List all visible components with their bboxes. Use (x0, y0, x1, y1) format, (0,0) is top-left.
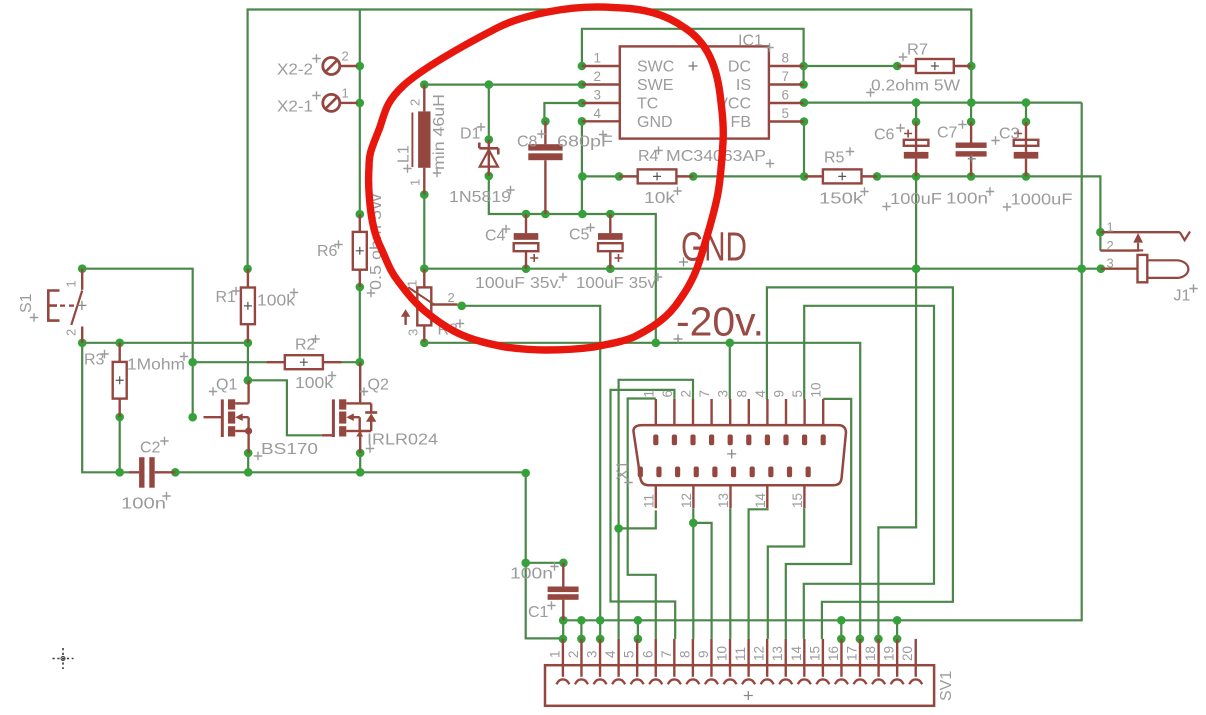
svg-text:2: 2 (1107, 238, 1114, 253)
value min 46uH (rotated) (431, 94, 448, 177)
svg-text:15: 15 (807, 646, 822, 661)
junction dots (wire-wire and wire-pin) (78, 62, 1105, 644)
transistor Q1 BS170 (222, 399, 252, 437)
capacitor C6 100uF (904, 122, 929, 177)
value MC34063AP (666, 148, 774, 168)
svg-text:1N5819: 1N5819 (449, 189, 511, 206)
Q1 source pin (247, 431, 249, 453)
wire net R8 wiper to SV1 pin3 (462, 306, 601, 639)
wire net VIN: top bus, X2 chain down to R6 (248, 10, 972, 269)
wire net VCC bus row102 with C6/C7/C3 stubs (804, 103, 1082, 122)
svg-text:16: 16 (826, 646, 841, 661)
label R2 (295, 335, 320, 354)
svg-text:3: 3 (594, 88, 602, 103)
value 100uF 35v (C5) (576, 273, 662, 292)
wire net FB/output row to J1 pins 1-2 (582, 122, 1100, 251)
label R6 (317, 240, 343, 260)
svg-text:13: 13 (770, 646, 785, 661)
wire net X1 pin6 to SV1 pin7 (611, 390, 676, 639)
svg-text:4: 4 (594, 106, 602, 121)
svg-text:2: 2 (679, 390, 694, 398)
svg-text:4: 4 (603, 650, 618, 658)
label C6 (874, 124, 905, 144)
IC1 pin names (637, 59, 751, 132)
svg-text:10k: 10k (644, 190, 676, 207)
svg-text:10: 10 (809, 382, 824, 397)
svg-text:0.2ohm 5W: 0.2ohm 5W (871, 78, 961, 95)
wire net S1/R1/R3/R2/Q1/Q2 left section (82, 269, 360, 473)
wire net source bus row472 with C2 and C1 (82, 343, 563, 639)
connector X1 D-sub body (633, 425, 846, 485)
value 1Mohm (127, 352, 188, 373)
label C4 (485, 225, 510, 245)
svg-text:S1: S1 (18, 293, 35, 313)
value 100k (R2) (295, 371, 336, 392)
svg-text:4: 4 (753, 390, 768, 398)
svg-text:1: 1 (405, 280, 420, 287)
X1 contact stubs (638, 435, 826, 478)
value 100k (R1) (257, 288, 298, 309)
svg-text:BS170: BS170 (261, 441, 318, 458)
label R5 (824, 147, 854, 166)
svg-text:9: 9 (772, 390, 787, 398)
svg-text:17: 17 (845, 646, 860, 661)
annotation: hand-drawn red circle (369, 7, 724, 350)
label R3 (84, 350, 109, 369)
label Q1 (209, 377, 238, 396)
label R1 (216, 287, 241, 306)
svg-text:10: 10 (715, 646, 730, 661)
svg-text:min 46uH: min 46uH (431, 94, 448, 170)
wire net X1 pin2/pin11 to SV1 pin4 (619, 380, 693, 639)
capacitor C3 1000uF (1014, 122, 1039, 177)
switch S1 (48, 269, 86, 343)
svg-text:680pF: 680pF (557, 134, 613, 151)
wire net X1 pin1 to SV1 pin6 (628, 399, 656, 639)
svg-text:14: 14 (789, 645, 804, 661)
svg-text:IS: IS (736, 77, 751, 94)
value 150k (819, 187, 869, 207)
value 10k (644, 187, 682, 207)
svg-text:MC34063AP: MC34063AP (666, 148, 766, 165)
svg-text:100n: 100n (121, 496, 166, 513)
label C3 (991, 126, 1019, 145)
X1 bottom pin lines (656, 485, 805, 508)
label X1 (rotated) (615, 460, 633, 486)
diode D1 schottky (479, 140, 498, 176)
svg-text:2: 2 (448, 290, 455, 305)
svg-text:11: 11 (641, 494, 656, 508)
svg-text:TC: TC (637, 96, 658, 113)
label C5 (569, 223, 595, 243)
label J1 (1174, 284, 1198, 304)
svg-text:5: 5 (622, 650, 637, 658)
svg-text:3: 3 (585, 650, 600, 658)
origin cross mark (53, 648, 74, 669)
svg-text:GND: GND (637, 114, 673, 131)
svg-text:13: 13 (716, 493, 731, 508)
capacitor C8 (528, 121, 562, 214)
wire net X1 pin14 to SV1 pin11 (749, 508, 768, 639)
svg-text:6: 6 (660, 390, 675, 398)
wire net X1 pin4 to SV1 pin15 (767, 287, 953, 639)
wire net row214 D1/C4/C8/C5 tops (489, 176, 656, 343)
label R7 (899, 42, 928, 62)
label D1 (460, 123, 485, 143)
wire net X1 pin12 to SV1 pins 8,9 (693, 508, 711, 639)
capacitor C4 100uF (514, 214, 539, 269)
label S1 (rotated) (18, 293, 38, 321)
svg-text:12: 12 (679, 493, 694, 508)
inductor L1 (412, 85, 430, 195)
svg-text:8: 8 (734, 390, 749, 398)
svg-text:D1: D1 (460, 126, 481, 143)
net label GND (679, 224, 747, 270)
svg-text:C3: C3 (999, 126, 1020, 143)
svg-text:R7: R7 (907, 42, 928, 59)
svg-text:1: 1 (408, 179, 423, 186)
wire net row620 SV1 pins 1,2,3,5,16,19 (563, 103, 1081, 639)
capacitor C5 100uF (598, 214, 623, 269)
label IC1 (738, 33, 774, 52)
svg-text:3: 3 (406, 329, 421, 336)
svg-text:7: 7 (659, 650, 674, 658)
wire net TC to C8 (544, 103, 582, 121)
op-amp/IC U1: IC1 MC34063AP box (582, 46, 804, 138)
svg-text:1: 1 (547, 650, 562, 658)
svg-text:C6: C6 (874, 127, 895, 144)
label R8 (438, 319, 465, 338)
wire net X1 pin10 to SV1 pin13 (786, 399, 851, 639)
resistor R6 (353, 214, 367, 287)
IC1 pin numbers 1-8 (594, 51, 790, 122)
resistor R1 (241, 269, 255, 343)
wire net X1 pin13 to SV1 pin10 (729, 508, 731, 639)
connector X2-1 screw terminal (323, 94, 358, 111)
svg-text:R6: R6 (317, 243, 338, 260)
label X2-2 with pin 2 (277, 49, 349, 79)
svg-text:100uF 35v: 100uF 35v (576, 275, 656, 292)
svg-text:5: 5 (782, 106, 790, 121)
svg-text:100k: 100k (295, 375, 334, 392)
svg-text:1: 1 (64, 280, 79, 287)
svg-text:SWE: SWE (637, 77, 673, 94)
svg-text:18: 18 (863, 646, 878, 661)
svg-text:DC: DC (728, 59, 751, 76)
svg-text:R5: R5 (824, 150, 845, 167)
svg-text:X1: X1 (615, 460, 632, 480)
svg-text:150k: 150k (819, 191, 864, 208)
resistor R5 (804, 169, 877, 183)
svg-text:3: 3 (716, 390, 731, 398)
label X2-1 with pin 1 (277, 86, 349, 116)
svg-text:100n: 100n (510, 566, 553, 583)
wire net GND row343 to X1 pin3 and SV1 pin17 (424, 343, 860, 639)
svg-text:100uF 35v.: 100uF 35v. (475, 275, 562, 292)
svg-text:2: 2 (342, 49, 349, 64)
value 0.2ohm 5W (866, 78, 961, 97)
svg-text:100uF: 100uF (890, 191, 942, 208)
capacitor C7 100n (956, 122, 987, 177)
value IRLR024 (366, 432, 438, 453)
svg-text:X2-2: X2-2 (277, 62, 313, 79)
label Q2 (360, 377, 389, 396)
wire net X1 pin15 to SV1 pin12 (768, 508, 804, 639)
svg-text:2: 2 (408, 99, 423, 106)
transistor Q2 IRLR024 (333, 399, 377, 437)
svg-text:11: 11 (733, 647, 748, 661)
svg-text:5: 5 (790, 390, 805, 398)
svg-text:8: 8 (677, 650, 692, 658)
svg-text:C2: C2 (140, 440, 161, 457)
Q1 drain pin (247, 380, 249, 403)
resistor R2 (266, 355, 341, 369)
svg-text:12: 12 (752, 646, 767, 661)
SV1 pin stubs and contacts (556, 639, 922, 684)
svg-text:Q1: Q1 (216, 377, 237, 394)
svg-text:100k: 100k (257, 293, 296, 310)
connector J1 jack plug (1100, 232, 1190, 283)
svg-text:C5: C5 (569, 227, 590, 244)
svg-text:1: 1 (641, 390, 656, 398)
svg-text:6: 6 (782, 88, 790, 103)
resistor R7 (897, 59, 971, 73)
svg-text:100n: 100n (946, 191, 988, 208)
svg-text:C4: C4 (485, 228, 506, 245)
Q2 gate pin (322, 434, 334, 436)
svg-text:SWC: SWC (637, 59, 674, 76)
svg-text:C1: C1 (528, 604, 549, 621)
value 1000uF (C3) (1003, 192, 1073, 212)
svg-text:8: 8 (782, 51, 790, 66)
svg-text:FB: FB (731, 114, 751, 131)
value 680pF (557, 130, 613, 150)
connector X2-2 screw terminal (323, 58, 358, 75)
svg-text:1: 1 (1107, 220, 1114, 235)
label C7 (937, 120, 967, 141)
svg-text:7: 7 (697, 390, 712, 398)
connector SV1 body (545, 665, 934, 706)
value 100uF (C6) (882, 191, 942, 211)
value 100n (C1) (510, 562, 559, 582)
value 0.5 ohm 5W (rotated) (367, 192, 385, 297)
svg-text:1: 1 (594, 51, 602, 66)
net label -20v. (674, 299, 765, 345)
wire net SWC-DC-IS loop and to R7 left (582, 29, 897, 85)
value 1N5819 (449, 186, 515, 206)
capacitor C1 100n (548, 563, 579, 621)
Q1 gate pin (204, 416, 223, 418)
svg-text:14: 14 (753, 492, 768, 508)
SV1 pin numbers 1-20 (547, 645, 915, 661)
svg-text:2: 2 (566, 650, 581, 658)
svg-text:2: 2 (64, 329, 79, 336)
label C2 (140, 437, 169, 457)
svg-text:C7: C7 (937, 125, 958, 142)
wire net IC GND pin down (581, 121, 583, 214)
svg-text:1Mohm: 1Mohm (127, 357, 185, 374)
wire net SWE: L1 top, D1 top (424, 85, 582, 140)
label L1 (rotated) (396, 145, 413, 173)
svg-text:2: 2 (594, 69, 602, 84)
resistor R4 (619, 169, 693, 183)
Q2 source pin (359, 431, 361, 453)
resistor R3 (113, 343, 127, 417)
svg-text:9: 9 (696, 650, 711, 658)
svg-text:GND: GND (681, 224, 747, 270)
X1 top pin numbers (641, 382, 823, 397)
label C1 (528, 601, 556, 621)
svg-text:X2-1: X2-1 (277, 99, 313, 116)
potentiometer R8 (401, 269, 458, 342)
label C8 (517, 130, 546, 151)
svg-text:J1: J1 (1174, 288, 1191, 305)
svg-text:L1: L1 (396, 145, 413, 163)
X1 top pin lines (656, 399, 823, 425)
X1 bottom pin numbers (641, 492, 805, 508)
wire net X1 pin5 to SV1 pin14 (804, 306, 934, 639)
label R4 (638, 146, 663, 165)
svg-text:IC1: IC1 (738, 33, 763, 50)
svg-text:15: 15 (790, 493, 805, 508)
capacitor C2 100n (129, 457, 175, 488)
svg-text:20: 20 (900, 646, 915, 661)
svg-text:Q2: Q2 (368, 377, 389, 394)
svg-text:19: 19 (882, 646, 897, 661)
wire net row269 GND to J1 pin3 and C6 branch to SV1 pin18 (424, 176, 1101, 639)
value 100uF 35v. (C4) (475, 273, 567, 292)
svg-text:SV1: SV1 (938, 671, 955, 701)
svg-text:IRLR024: IRLR024 (367, 432, 438, 449)
value BS170 (254, 441, 318, 460)
svg-text:1: 1 (342, 86, 349, 101)
svg-text:1000uF: 1000uF (1011, 192, 1073, 209)
value 100n (C2) (121, 492, 171, 513)
svg-text:6: 6 (640, 650, 655, 658)
svg-text:C8: C8 (517, 134, 538, 151)
value 100n (C7) (946, 187, 994, 207)
svg-text:3: 3 (1107, 256, 1114, 271)
svg-text:7: 7 (782, 69, 790, 84)
svg-text:-20v.: -20v. (676, 299, 764, 345)
Q2 drain pin (359, 362, 361, 403)
